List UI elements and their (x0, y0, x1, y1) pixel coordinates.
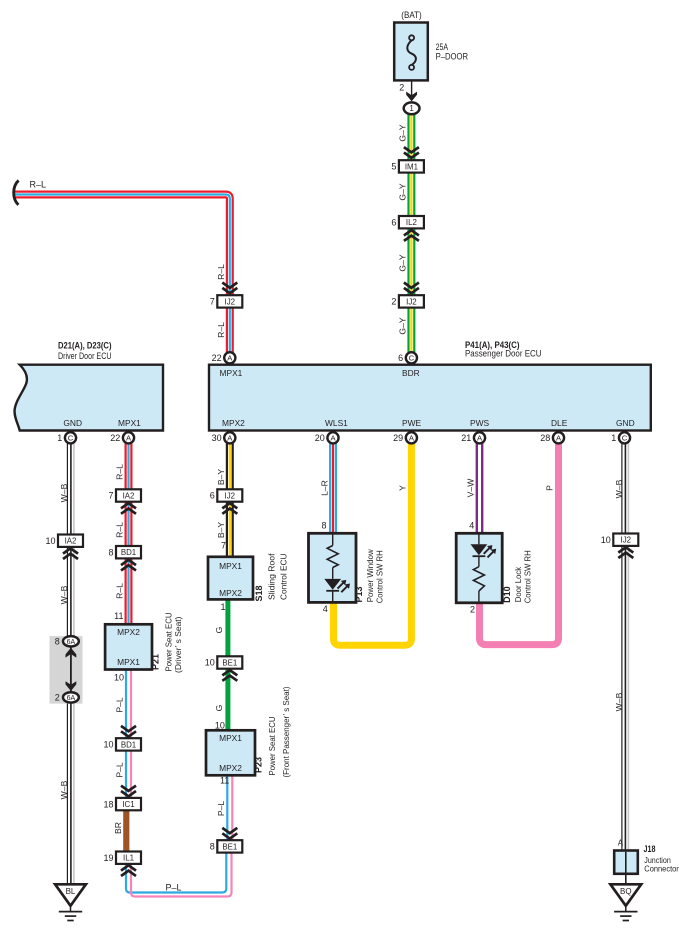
svg-text:IL1: IL1 (123, 854, 134, 863)
svg-text:PWE: PWE (402, 418, 421, 428)
svg-text:Control SW RH: Control SW RH (523, 550, 533, 603)
svg-text:2: 2 (470, 605, 475, 615)
svg-text:Passenger Door ECU: Passenger Door ECU (465, 349, 542, 359)
svg-text:5: 5 (391, 162, 396, 172)
svg-text:10: 10 (114, 673, 124, 683)
svg-text:6: 6 (210, 491, 215, 501)
svg-text:G–Y: G–Y (397, 317, 407, 334)
svg-text:W–B: W–B (59, 483, 69, 502)
svg-text:BE1: BE1 (222, 658, 237, 667)
svg-text:MPX1: MPX1 (117, 657, 140, 667)
svg-text:MPX1: MPX1 (219, 733, 242, 743)
svg-text:W–B: W–B (614, 692, 624, 711)
svg-text:L–R: L–R (320, 480, 330, 496)
svg-text:A: A (618, 839, 624, 848)
svg-text:8: 8 (321, 520, 326, 530)
svg-text:G–Y: G–Y (397, 254, 407, 271)
svg-text:IA2: IA2 (123, 491, 135, 500)
svg-text:P: P (545, 485, 555, 491)
svg-text:IM1: IM1 (405, 162, 418, 171)
svg-text:R–L: R–L (115, 583, 125, 599)
svg-text:R–L: R–L (30, 180, 47, 190)
svg-text:1: 1 (611, 433, 616, 443)
svg-text:MPX2: MPX2 (219, 763, 242, 773)
svg-text:BE1: BE1 (222, 842, 237, 851)
svg-text:GND: GND (63, 418, 82, 428)
svg-text:S18: S18 (254, 585, 264, 601)
svg-text:2: 2 (55, 693, 60, 703)
svg-text:G: G (214, 626, 224, 633)
svg-text:R–L: R–L (216, 322, 226, 338)
svg-text:G–Y: G–Y (397, 124, 407, 141)
svg-text:C: C (409, 354, 415, 363)
svg-text:MPX2: MPX2 (222, 418, 245, 428)
svg-text:BL: BL (66, 887, 76, 896)
svg-text:Y: Y (398, 485, 408, 491)
svg-text:6: 6 (398, 353, 403, 363)
svg-text:11: 11 (114, 611, 123, 621)
svg-text:B–Y: B–Y (216, 469, 226, 486)
svg-text:C: C (622, 434, 628, 443)
svg-text:W–B: W–B (59, 780, 69, 799)
svg-text:W–B: W–B (614, 479, 624, 498)
svg-text:28: 28 (540, 433, 550, 443)
svg-text:11: 11 (220, 776, 229, 786)
svg-text:IJ2: IJ2 (621, 536, 632, 545)
svg-text:2: 2 (391, 297, 396, 307)
svg-text:IL2: IL2 (406, 218, 417, 227)
svg-text:WLS1: WLS1 (325, 418, 348, 428)
svg-text:IJ2: IJ2 (225, 297, 236, 306)
svg-text:(Front Passenger’ s Seat): (Front Passenger’ s Seat) (281, 686, 291, 777)
svg-text:8: 8 (55, 637, 60, 647)
svg-text:19: 19 (103, 853, 113, 863)
svg-text:DLE: DLE (551, 418, 568, 428)
svg-text:IA2: IA2 (65, 537, 77, 546)
svg-text:22: 22 (110, 433, 120, 443)
svg-text:30: 30 (212, 433, 222, 443)
svg-text:P23: P23 (254, 757, 264, 773)
svg-text:MPX1: MPX1 (220, 368, 243, 378)
svg-text:P13: P13 (354, 586, 364, 602)
svg-text:C: C (68, 434, 74, 443)
svg-text:B–Y: B–Y (216, 522, 226, 539)
svg-text:MPX1: MPX1 (219, 561, 242, 571)
svg-text:Driver Door ECU: Driver Door ECU (58, 351, 112, 361)
svg-text:IC1: IC1 (122, 800, 134, 809)
svg-text:D10: D10 (502, 586, 512, 603)
svg-text:1: 1 (409, 104, 414, 113)
svg-text:P–L: P–L (115, 697, 125, 713)
svg-text:7: 7 (210, 297, 215, 307)
svg-text:6: 6 (391, 217, 396, 227)
svg-text:W–B: W–B (59, 585, 69, 604)
svg-text:6A: 6A (67, 639, 76, 646)
svg-text:Sliding Roof: Sliding Roof (267, 553, 277, 600)
svg-text:P–L: P–L (115, 762, 125, 778)
svg-text:Power Seat ECU: Power Seat ECU (267, 717, 277, 776)
svg-text:6A: 6A (67, 695, 76, 702)
svg-text:2: 2 (399, 83, 404, 93)
svg-text:1: 1 (220, 602, 225, 612)
svg-text:R–L: R–L (216, 264, 226, 280)
svg-text:J18: J18 (644, 844, 656, 854)
svg-text:GND: GND (616, 418, 635, 428)
svg-text:21: 21 (461, 433, 471, 443)
svg-text:10: 10 (103, 740, 113, 750)
svg-text:Connector: Connector (644, 863, 679, 873)
svg-text:(BAT): (BAT) (401, 10, 422, 20)
svg-text:G: G (214, 704, 224, 711)
svg-text:V–W: V–W (466, 478, 476, 498)
svg-text:8: 8 (210, 842, 215, 852)
svg-text:4: 4 (469, 521, 474, 531)
svg-text:BD1: BD1 (121, 740, 136, 749)
svg-text:PWS: PWS (470, 418, 489, 428)
svg-text:IJ2: IJ2 (406, 297, 417, 306)
svg-text:10: 10 (205, 658, 215, 668)
svg-text:IJ2: IJ2 (225, 491, 236, 500)
svg-text:R–L: R–L (115, 464, 125, 480)
svg-text:8: 8 (108, 547, 113, 557)
svg-text:7: 7 (221, 540, 226, 550)
svg-text:R–L: R–L (115, 522, 125, 538)
svg-text:P–DOOR: P–DOOR (436, 52, 469, 62)
svg-text:MPX2: MPX2 (117, 627, 140, 637)
svg-text:BQ: BQ (620, 887, 632, 896)
svg-text:(Driver’ s Seat): (Driver’ s Seat) (173, 616, 183, 673)
svg-text:P–L: P–L (216, 801, 226, 817)
svg-text:29: 29 (393, 433, 403, 443)
svg-text:7: 7 (108, 491, 113, 501)
svg-text:18: 18 (103, 799, 113, 809)
svg-text:10: 10 (45, 536, 55, 546)
svg-text:G–Y: G–Y (397, 183, 407, 200)
svg-text:P21: P21 (151, 654, 161, 670)
svg-text:D21(A), D23(C): D21(A), D23(C) (58, 341, 112, 351)
svg-text:1: 1 (57, 433, 62, 443)
svg-text:BD1: BD1 (121, 548, 136, 557)
svg-text:BDR: BDR (402, 368, 420, 378)
svg-text:BR: BR (113, 822, 123, 834)
svg-text:Control ECU: Control ECU (279, 554, 289, 601)
svg-text:MPX2: MPX2 (219, 588, 242, 598)
svg-text:4: 4 (323, 604, 328, 614)
svg-text:Control SW RH: Control SW RH (374, 550, 384, 603)
svg-text:20: 20 (315, 433, 325, 443)
svg-text:10: 10 (601, 535, 611, 545)
svg-text:MPX1: MPX1 (118, 418, 141, 428)
svg-text:22: 22 (212, 353, 222, 363)
svg-text:P–L: P–L (165, 883, 181, 893)
